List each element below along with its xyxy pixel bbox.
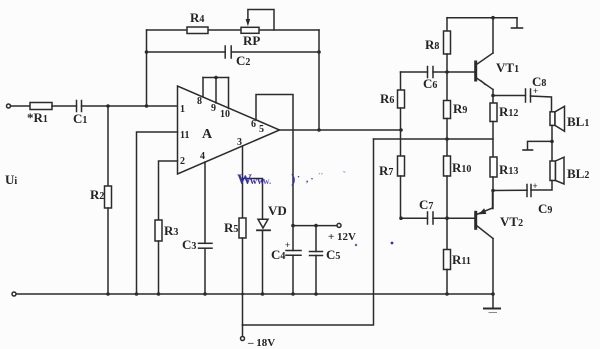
node C2 left — [145, 50, 149, 54]
svg-text:): ) — [291, 171, 295, 186]
resistor R8 — [444, 31, 451, 54]
node mid rail R9 — [445, 137, 449, 141]
wire C4 — [292, 226, 294, 251]
wire C6 right to VT1 base — [433, 71, 475, 73]
svg-text:·: · — [297, 172, 300, 182]
input terminal — [7, 104, 11, 108]
wire BL1 to BL2 — [551, 125, 553, 161]
node rail R3 — [157, 292, 161, 296]
svg-text:3: 3 — [237, 137, 242, 148]
wire VT1 collector — [492, 18, 494, 53]
svg-text:5: 5 — [259, 124, 264, 135]
chassis tick top right — [516, 18, 518, 28]
node C8 tap — [491, 94, 495, 98]
wire R13 to VT2 — [492, 177, 494, 209]
op-amp U A — [178, 86, 280, 174]
wire BL2 bottom — [531, 181, 552, 191]
node R10 R11 tap — [445, 216, 449, 220]
node output R6 R7 — [399, 128, 403, 132]
wire pin 11 — [137, 132, 178, 294]
svg-text:1: 1 — [180, 104, 185, 115]
resistor R2 — [105, 186, 112, 208]
wire C3 to bottom rail — [204, 248, 206, 294]
wire pin 6 supply loop — [256, 95, 293, 226]
capacitor C5 — [310, 252, 323, 256]
wire R3 to bottom rail — [158, 241, 160, 294]
speaker BL2 — [550, 157, 564, 184]
node rail C5 — [314, 292, 318, 296]
svg-text:+: + — [533, 181, 538, 191]
wire C8 right to BL1 — [531, 96, 552, 112]
wire R2 to bottom rail — [107, 208, 109, 294]
wire C2 left — [147, 51, 226, 53]
svg-text:+ 12V: + 12V — [328, 231, 356, 243]
node rail C3 — [203, 292, 207, 296]
node C2 right — [317, 50, 321, 54]
node +12V branch — [291, 224, 295, 228]
wire C7 to VT2 base — [433, 217, 475, 219]
transistor VT2 — [474, 208, 493, 239]
wire input to R1 — [11, 105, 31, 107]
terminal -18V — [241, 337, 245, 341]
wire C4 to bottom rail — [292, 255, 294, 294]
ground — [484, 308, 500, 310]
capacitor C7 — [428, 212, 434, 224]
wire op-amp output — [280, 129, 402, 131]
resistor R7 — [398, 156, 405, 176]
node C5 tap — [314, 224, 318, 228]
chassis tick speakers — [528, 141, 553, 149]
node pin 9 bridge — [214, 76, 218, 80]
capacitor C8 — [526, 89, 531, 102]
capacitor C9 — [527, 185, 531, 197]
resistor R13 — [490, 157, 497, 177]
wire R12 to R13 — [492, 122, 494, 158]
potentiometer RP — [241, 27, 259, 33]
wire C2 right — [231, 51, 319, 53]
svg-text:, ·: , · — [306, 174, 314, 184]
watermark — [237, 170, 393, 246]
wire VT2 collector down — [492, 239, 494, 309]
svg-text:10: 10 — [220, 109, 230, 120]
capacitor C6 — [428, 67, 434, 78]
wire +12V — [293, 225, 337, 227]
wire R8 top — [446, 18, 448, 31]
wire -18V terminal lead — [242, 325, 244, 337]
resistor R11 — [444, 250, 451, 270]
RP wiper bracket — [248, 10, 274, 31]
node rail R2 — [106, 292, 110, 296]
wire pin 4 — [204, 162, 206, 243]
wire C6 left — [401, 71, 428, 73]
wire feedback right vertical — [318, 30, 320, 130]
diode VD — [258, 219, 268, 228]
wire pin 2 — [159, 161, 178, 220]
terminal bottom left — [12, 292, 16, 296]
op-amp pin numbers — [180, 96, 264, 167]
wire R6 R7 column — [400, 72, 402, 90]
svg-text:6: 6 — [251, 119, 256, 130]
wire R10 top — [446, 139, 448, 156]
svg-text:+: + — [533, 86, 538, 96]
resistor R6 — [398, 90, 405, 108]
resistor R4 — [187, 27, 208, 34]
wire bottom rail — [17, 293, 494, 295]
wire R10 to R11 — [446, 176, 448, 250]
node rail R5 crossing — [241, 293, 244, 296]
capacitor C1 — [77, 101, 82, 112]
resistor R12 — [490, 103, 497, 122]
wire C9 left — [493, 189, 527, 191]
node C9 tap — [491, 189, 495, 193]
svg-text:2: 2 — [180, 156, 185, 167]
node feedback tap — [145, 104, 149, 108]
wire C5 to bottom rail — [315, 256, 317, 295]
node top rail VT1 collector — [491, 16, 495, 20]
resistor R1 — [30, 103, 52, 110]
capacitor C4 — [286, 251, 301, 256]
resistor R5 — [239, 218, 246, 238]
wire pin 3 — [242, 146, 244, 218]
svg-text:8: 8 — [197, 96, 202, 107]
wire C1 to pin 1 — [82, 105, 178, 107]
svg-text:w.: w. — [263, 176, 271, 186]
node R2 tap — [106, 104, 110, 108]
wire R9 bottom — [446, 119, 448, 140]
resistor R3 — [155, 220, 162, 241]
svg-text:– 18V: – 18V — [247, 337, 275, 349]
wire feedback left vertical — [146, 30, 148, 106]
wire C5 — [315, 226, 317, 252]
wire VT1 emitter — [492, 90, 494, 104]
wire top rail — [447, 17, 517, 19]
node speaker mid — [550, 140, 554, 144]
svg-text:9: 9 — [211, 103, 216, 114]
svg-text:A: A — [202, 127, 213, 142]
wire C7 base — [401, 217, 428, 219]
node C7 R7 — [399, 216, 403, 220]
wire R5 to -18V line — [242, 238, 244, 325]
node rail R11 — [445, 292, 449, 296]
wire R2 column — [107, 106, 109, 186]
wire R7 to C7 node — [400, 176, 402, 218]
wire VD to bottom rail — [262, 230, 264, 294]
wire R6 to output node — [400, 108, 402, 156]
wire R11 to bottom rail — [446, 270, 448, 295]
wire R1 to C1 — [52, 105, 77, 107]
wire -18V line — [243, 139, 374, 325]
wire R9 top — [446, 72, 448, 101]
node rail VT2 — [491, 292, 495, 296]
node rail VD — [261, 292, 265, 296]
wire R8 bottom — [446, 54, 448, 72]
transistor VT1 — [474, 53, 493, 90]
node output feedback — [317, 128, 321, 132]
wire VT2 emitter up — [492, 191, 494, 209]
svg-text:RP: RP — [243, 33, 260, 48]
svg-text:4: 4 — [200, 151, 205, 162]
resistor R9 — [444, 101, 451, 119]
wire feedback top — [147, 29, 320, 31]
svg-text:´´: ´´ — [318, 172, 324, 181]
wire mid rail -18V — [374, 138, 494, 140]
node rail C4 — [291, 292, 295, 296]
node C6 R8 R9 — [445, 70, 449, 74]
node rail pin11 — [135, 292, 139, 296]
RP wiper arrow — [246, 19, 251, 26]
resistor R10 — [444, 156, 451, 176]
svg-text:ˇ: ˇ — [343, 170, 346, 179]
svg-text:11: 11 — [180, 130, 189, 141]
svg-text:+: + — [285, 240, 290, 250]
speaker BL1 — [550, 106, 565, 131]
capacitor C2 — [225, 46, 231, 58]
wire C8 left — [493, 95, 526, 97]
wire pins 8 9 10 — [202, 78, 204, 98]
svg-text:VD: VD — [268, 203, 287, 218]
capacitor C3 — [199, 243, 213, 248]
wire VD top — [243, 179, 263, 220]
terminal +12V — [337, 223, 341, 227]
